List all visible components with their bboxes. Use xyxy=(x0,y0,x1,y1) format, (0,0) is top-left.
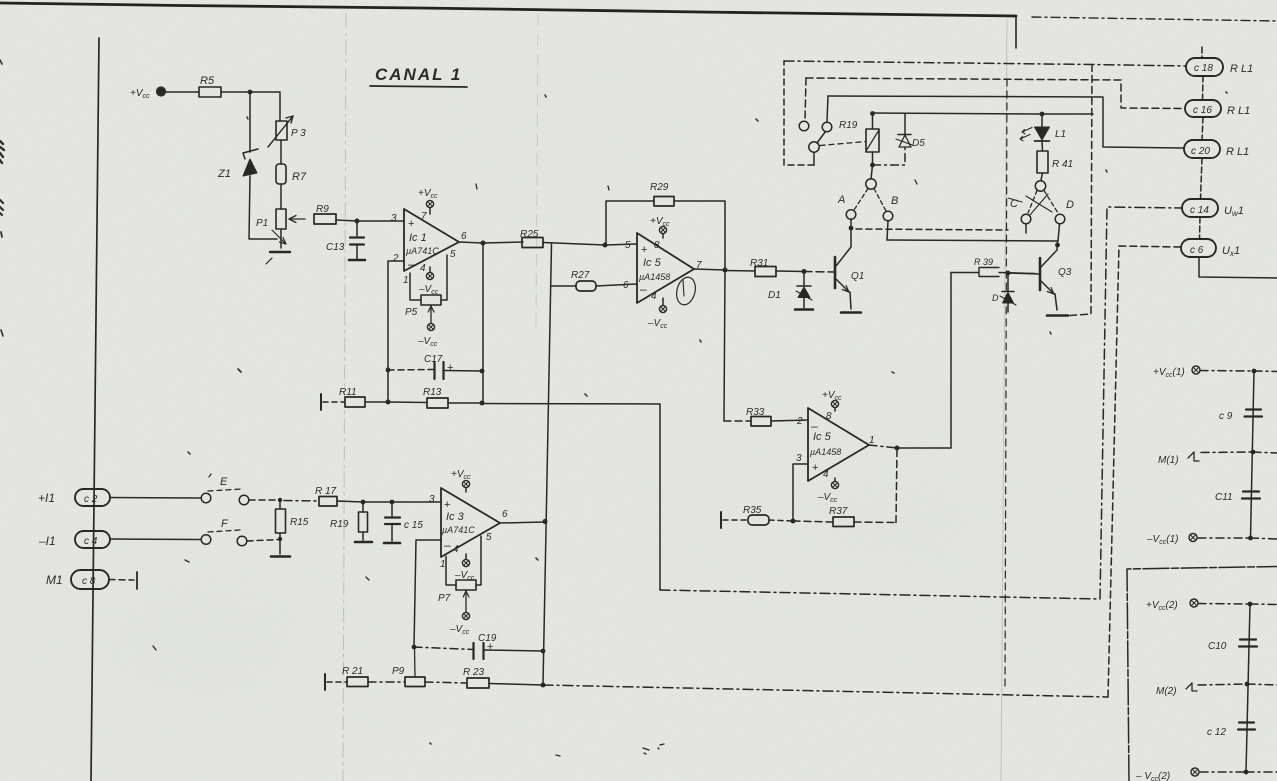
svg-text:P7: P7 xyxy=(438,593,451,604)
svg-text:P5: P5 xyxy=(405,307,418,318)
IC5B pin8 +Vcc xyxy=(822,390,842,411)
svg-text:4: 4 xyxy=(453,544,459,555)
svg-text:R L1: R L1 xyxy=(1226,146,1249,158)
IC5A pin4 -Vcc xyxy=(647,298,668,330)
contact D xyxy=(1055,199,1074,241)
title CANAL 1 xyxy=(370,65,467,87)
wire R13 to right node xyxy=(448,402,482,404)
svg-text:+: + xyxy=(408,218,414,230)
svg-text:6: 6 xyxy=(461,231,467,242)
connector C20 xyxy=(1184,117,1249,158)
IC5A output wire xyxy=(694,269,725,270)
svg-text:c 12: c 12 xyxy=(1207,727,1226,738)
svg-text:+I1: +I1 xyxy=(38,491,55,505)
node C15 top xyxy=(390,500,395,505)
wire C18 net (dash-dot from relay frame) xyxy=(784,61,1186,66)
node L1 top xyxy=(1040,112,1045,117)
+Vcc(1) rail xyxy=(1153,366,1277,379)
node C17 left xyxy=(386,368,391,373)
wire C2 to switch E xyxy=(110,497,201,500)
ground below D1 xyxy=(795,308,813,311)
svg-text:+: + xyxy=(447,362,453,374)
wire +Vcc to R5 xyxy=(166,91,199,93)
left vertical bus wire xyxy=(91,38,99,781)
wire bar to R11 xyxy=(323,401,345,403)
wire coil-top net to L1 and right xyxy=(873,113,1094,114)
resistor R21 xyxy=(327,666,368,687)
svg-text:4: 4 xyxy=(823,469,829,480)
svg-text:–I1: –I1 xyxy=(38,534,56,548)
wire C14 net (dash-dot to Uw1 riser) xyxy=(660,207,1182,599)
svg-text:R29: R29 xyxy=(650,182,669,193)
transistor Q3 xyxy=(1040,241,1072,310)
svg-text:R13: R13 xyxy=(423,387,442,398)
connector C18 xyxy=(1186,47,1253,76)
resistor R13 xyxy=(423,387,448,408)
potentiometer P3 xyxy=(268,116,306,147)
node IC5B output xyxy=(895,446,900,451)
op-amp IC1 µA741C xyxy=(391,209,467,286)
svg-text:C13: C13 xyxy=(326,242,345,253)
fold line at x=345 (faint) xyxy=(343,14,346,781)
svg-text:C17: C17 xyxy=(424,354,443,365)
terminal bar left of R35 xyxy=(720,512,722,528)
IC1 pin4 -Vcc xyxy=(418,267,439,296)
resistor R23 xyxy=(425,667,543,688)
node C19 right xyxy=(541,649,546,654)
svg-text:+: + xyxy=(812,462,818,474)
IC1 pin7 +Vcc xyxy=(418,188,438,214)
wire C8 stub with terminal bar xyxy=(109,572,137,589)
svg-text:R27: R27 xyxy=(571,270,590,281)
dashed vertical x=1092 (C18 branch) xyxy=(1070,65,1092,316)
switch A/B pole xyxy=(854,165,886,211)
node coil top xyxy=(870,111,875,116)
connector C6 xyxy=(1181,217,1240,258)
wire R9 wiper to junction xyxy=(315,218,335,220)
svg-text:D: D xyxy=(1066,199,1074,211)
capacitor C13 xyxy=(326,221,364,259)
ground below C15 xyxy=(384,542,400,545)
diode D1 xyxy=(768,271,812,308)
svg-text:Z1: Z1 xyxy=(217,168,231,180)
wire R37 right up to output node xyxy=(896,449,897,523)
wire C4 to switch F xyxy=(110,538,201,541)
wire C20 net (solid) xyxy=(828,96,1184,148)
node after R25 xyxy=(603,243,608,248)
node R31 right / D1 top xyxy=(802,269,807,274)
svg-text:R19: R19 xyxy=(839,120,858,131)
LED L1 xyxy=(1020,114,1066,151)
svg-text:–: – xyxy=(640,282,647,296)
svg-text:–: – xyxy=(408,257,415,271)
svg-text:4: 4 xyxy=(651,291,657,302)
IC3 pin7 +Vcc xyxy=(451,469,471,492)
svg-text:R19: R19 xyxy=(330,519,349,530)
resistor R11 xyxy=(339,387,365,407)
ground below P1 xyxy=(266,252,290,264)
handwritten oval annotation near IC5A xyxy=(674,275,698,307)
svg-text:C11: C11 xyxy=(1215,492,1233,503)
fold line at x=537 (faint) xyxy=(536,14,538,330)
M(2) rail xyxy=(1156,682,1277,697)
svg-text:c 9: c 9 xyxy=(1219,411,1233,422)
svg-text:1: 1 xyxy=(440,559,446,570)
fold line at x=1003 (faint full height) xyxy=(1001,20,1007,781)
node R13 right xyxy=(480,401,485,406)
contact A xyxy=(837,194,856,228)
M(1) rail xyxy=(1158,450,1277,466)
svg-text:+: + xyxy=(641,244,647,256)
op-amp IC3 µA741C xyxy=(429,488,508,570)
svg-text:R7: R7 xyxy=(292,171,307,183)
svg-text:Q1: Q1 xyxy=(851,271,864,282)
wire Q3 base junction to base xyxy=(1008,273,1040,274)
svg-text:2: 2 xyxy=(796,416,803,427)
zener Z1 xyxy=(217,92,277,239)
svg-text:8: 8 xyxy=(826,411,832,422)
svg-text:c 16: c 16 xyxy=(1193,105,1212,116)
resistor R17 xyxy=(284,486,441,506)
wire contact B to contact D column xyxy=(887,240,1057,241)
capacitor C15 xyxy=(385,502,423,541)
contact B xyxy=(883,195,898,240)
wire P3 to R7 xyxy=(280,140,282,164)
node R15 bottom xyxy=(278,537,282,541)
box border (channel 2 section) xyxy=(1127,567,1277,781)
wire C16 net xyxy=(806,78,1185,109)
svg-text:–: – xyxy=(444,538,451,552)
svg-text:+: + xyxy=(444,499,450,511)
svg-text:6: 6 xyxy=(502,509,508,520)
op-amp IC5 (B) µA1458 xyxy=(796,408,875,481)
svg-text:4: 4 xyxy=(420,263,426,274)
node Q3 collector top xyxy=(1055,243,1060,248)
wire C16 net left drop to contact xyxy=(805,78,806,120)
svg-text:R37: R37 xyxy=(829,506,848,517)
svg-text:c 6: c 6 xyxy=(1190,245,1204,256)
transistor Q1 xyxy=(835,228,864,309)
long vertical wire R25 node down to R23 node xyxy=(543,244,552,685)
wire E to R15 node xyxy=(249,499,280,501)
capacitor C11 xyxy=(1215,492,1260,504)
potentiometer P9 xyxy=(368,647,425,687)
svg-text:c 15: c 15 xyxy=(404,520,423,531)
switch E xyxy=(201,474,249,505)
svg-text:5: 5 xyxy=(486,532,492,543)
wire R11 to R13 xyxy=(365,401,427,404)
ground below Q1 emitter xyxy=(841,311,861,314)
svg-text:µA741C: µA741C xyxy=(442,525,475,535)
svg-text:µA1458: µA1458 xyxy=(639,272,670,282)
mechanical link relay coil to switch xyxy=(820,142,866,146)
resistor R19 xyxy=(330,502,368,540)
resistor R5 xyxy=(199,75,221,97)
node coil bottom xyxy=(870,163,875,168)
wire R13 node right then down (to Uw1 net) xyxy=(482,404,660,591)
wire C6 net riser xyxy=(1108,246,1181,697)
wire Vcc(1) vertical xyxy=(1251,371,1255,538)
svg-text:c 8: c 8 xyxy=(82,576,96,587)
resistor R41 xyxy=(1037,151,1073,173)
resistor R9 xyxy=(314,204,336,224)
resistor R29 (feedback) xyxy=(606,182,725,270)
svg-text:Ic 5: Ic 5 xyxy=(643,257,662,269)
connector C14 xyxy=(1182,158,1244,218)
svg-text:7: 7 xyxy=(421,211,427,222)
wire R25 to IC5 pin5 xyxy=(543,243,637,246)
op-amp IC5 (A) µA1458 xyxy=(623,233,702,303)
relay switch (left pair) xyxy=(799,121,832,165)
svg-text:M(1): M(1) xyxy=(1158,455,1179,466)
node IC5B pin3 xyxy=(791,519,796,524)
svg-text:L1: L1 xyxy=(1055,129,1066,140)
node Q3 base junction xyxy=(1006,271,1011,276)
wire C6 bottom out to right edge xyxy=(1199,257,1277,278)
svg-text:Ic 5: Ic 5 xyxy=(813,431,832,443)
svg-text:c 14: c 14 xyxy=(1190,205,1209,216)
wire R7 to P1 xyxy=(280,184,282,209)
node IC3 output xyxy=(543,519,548,524)
svg-text:CANAL 1: CANAL 1 xyxy=(375,65,462,84)
node C13 junction xyxy=(355,219,360,224)
svg-text:P 3: P 3 xyxy=(291,128,306,139)
svg-text:R15: R15 xyxy=(290,517,309,528)
IC5A pin8 +Vcc xyxy=(650,216,670,238)
wire contact A dashed to Q3 base net xyxy=(856,229,1008,230)
IC1 feedback vertical wire xyxy=(482,243,484,403)
svg-text:2: 2 xyxy=(392,253,399,264)
resistor R15 xyxy=(276,500,309,554)
-Vcc(1) rail xyxy=(1146,534,1277,547)
page top border line xyxy=(0,3,1277,48)
svg-text:µA1458: µA1458 xyxy=(810,447,841,457)
terminal bar left of R21 xyxy=(324,674,326,690)
switch C/D pole xyxy=(1026,173,1058,215)
svg-text:R L1: R L1 xyxy=(1227,105,1250,117)
node IC1 output xyxy=(481,241,486,246)
wire IC3 pin2 to left vertical xyxy=(414,540,441,647)
diode D5 (across coil) xyxy=(873,114,926,165)
resistor R35 xyxy=(723,505,793,525)
wire relay pole to dashed frame (left) xyxy=(784,61,814,165)
IC5B pin4 -Vcc xyxy=(817,478,839,504)
svg-text:D: D xyxy=(992,293,999,303)
resistor R39 xyxy=(951,257,1035,277)
svg-text:Q3: Q3 xyxy=(1058,267,1072,278)
+Vcc terminal (top left) xyxy=(130,87,166,100)
node C17 right xyxy=(480,369,485,374)
svg-text:Ic 3: Ic 3 xyxy=(446,511,465,523)
resistor R25 xyxy=(520,229,543,248)
svg-text:R L1: R L1 xyxy=(1230,63,1253,75)
+Vcc(2) rail xyxy=(1146,599,1277,612)
wire output right and up to R39 xyxy=(897,273,951,449)
svg-text:D5: D5 xyxy=(912,138,925,149)
relay coil R19 xyxy=(839,120,879,152)
svg-text:c 20: c 20 xyxy=(1191,146,1210,157)
node R13 left xyxy=(386,400,391,405)
svg-text:8: 8 xyxy=(654,240,660,251)
scattered scan specks xyxy=(188,92,1227,744)
node below R5 (junction to Z1) xyxy=(248,90,253,95)
wire IC1 pin2 to left vertical xyxy=(388,261,404,402)
wire node up to IC5B pin3 xyxy=(793,464,808,521)
wire D1 node to Q1 base xyxy=(804,271,835,274)
svg-text:C10: C10 xyxy=(1208,641,1227,652)
wire IC1 output to R25 xyxy=(459,242,523,243)
terminal bar left of R11 xyxy=(320,394,322,410)
svg-text:A: A xyxy=(837,194,845,206)
capacitor C10 xyxy=(1208,640,1257,653)
IC5B output wire xyxy=(869,445,897,448)
svg-text:+: + xyxy=(487,641,493,653)
potentiometer P1 xyxy=(256,209,305,229)
wire F to R15 bottom node xyxy=(247,540,280,542)
ground below R19 xyxy=(355,541,372,544)
ground below C13 xyxy=(349,259,365,262)
svg-text:R 41: R 41 xyxy=(1052,159,1073,170)
switch F xyxy=(201,518,247,546)
svg-text:M1: M1 xyxy=(46,573,63,587)
wire C20 net left drop to contact xyxy=(827,96,828,121)
node IC5A output xyxy=(723,268,728,273)
left scan-edge marks xyxy=(0,60,369,650)
svg-text:E: E xyxy=(220,476,228,488)
resistor R31 xyxy=(725,258,804,277)
connector C2 xyxy=(38,489,110,506)
svg-text:R 21: R 21 xyxy=(342,666,363,677)
node C19 left xyxy=(412,645,417,650)
wire coil bottom xyxy=(872,152,874,165)
connector C16 xyxy=(1185,76,1250,117)
vertical wire output node down to R33 xyxy=(724,270,725,421)
contact C xyxy=(1008,198,1031,233)
potentiometer P7 (offset null) xyxy=(438,536,481,612)
svg-text:R5: R5 xyxy=(200,75,215,87)
ground below Q3 emitter xyxy=(1047,314,1068,317)
capacitor C17 xyxy=(388,354,482,379)
svg-text:D1: D1 xyxy=(768,290,781,301)
svg-text:6: 6 xyxy=(623,280,629,291)
capacitor C19 xyxy=(414,633,543,659)
svg-text:c 4: c 4 xyxy=(84,536,98,547)
svg-text:Ic 1: Ic 1 xyxy=(409,232,427,244)
resistor R7 xyxy=(276,164,307,184)
ground below R15 xyxy=(271,555,290,558)
svg-text:R 39: R 39 xyxy=(974,257,993,267)
capacitor C12 xyxy=(1207,723,1255,739)
svg-text:P1: P1 xyxy=(256,218,268,229)
wire coil top to +net xyxy=(872,113,874,129)
stray ink marks bottom middle xyxy=(476,180,917,756)
svg-text:B: B xyxy=(891,195,898,207)
wire R23 node to Ux1 riser (bottom long dash) xyxy=(543,685,1108,697)
svg-text:c 18: c 18 xyxy=(1194,63,1213,74)
svg-text:R 17: R 17 xyxy=(315,486,337,497)
svg-text:P9: P9 xyxy=(392,666,405,677)
node R23 right xyxy=(541,683,546,688)
resistor R37 xyxy=(793,506,896,527)
svg-text:c 2: c 2 xyxy=(84,494,98,505)
svg-text:5: 5 xyxy=(450,249,456,260)
wire P1 bottom with wiper return arrow xyxy=(272,229,286,248)
IC3 output wire xyxy=(500,522,545,523)
node R15 top xyxy=(278,498,282,502)
connector C8 xyxy=(46,570,109,589)
P5 wiper -Vcc terminal xyxy=(417,323,438,348)
node R19 top xyxy=(361,500,366,505)
IC3 pin4 -Vcc xyxy=(454,554,475,582)
wire Vcc(2) vertical xyxy=(1246,604,1250,772)
svg-text:3: 3 xyxy=(796,453,802,464)
diode D7 below Q3 base xyxy=(992,275,1016,312)
svg-text:1: 1 xyxy=(403,275,409,286)
wire R9 to C13 node and IC1 pin3 xyxy=(336,220,404,221)
capacitor C9 xyxy=(1219,410,1262,423)
P7 wiper -Vcc terminal xyxy=(449,612,470,636)
resistor R27 xyxy=(551,270,637,291)
-Vcc(2) rail xyxy=(1135,768,1277,781)
connector C4 xyxy=(38,531,110,548)
resistor R33 xyxy=(724,407,808,426)
svg-text:5: 5 xyxy=(625,240,631,251)
dashed vertical x=1008 (Q3 base control net) xyxy=(1005,79,1007,690)
svg-text:M(2): M(2) xyxy=(1156,686,1177,697)
svg-text:3: 3 xyxy=(429,494,435,505)
wire R5 to corner xyxy=(221,92,280,121)
potentiometer P5 (offset null) xyxy=(405,255,447,323)
svg-text:µA741C: µA741C xyxy=(406,246,439,256)
svg-text:3: 3 xyxy=(391,213,397,224)
node Q1 collector top xyxy=(849,226,854,231)
svg-text:R 23: R 23 xyxy=(463,667,485,678)
